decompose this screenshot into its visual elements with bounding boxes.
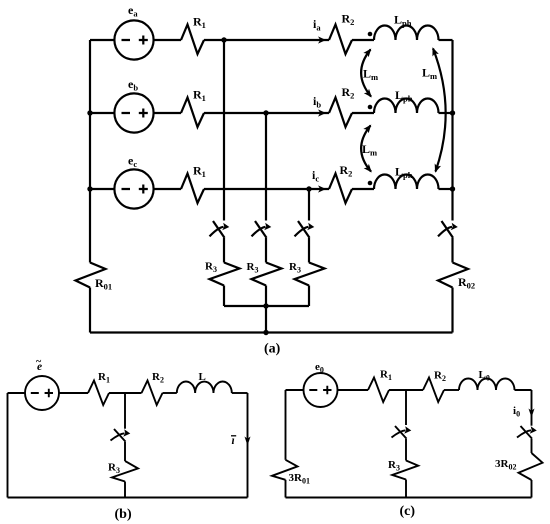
wire from source e_a to resistor R1 bbox=[154, 39, 181, 41]
resistor R1 (row b) bbox=[181, 98, 204, 128]
resistor R02 bbox=[438, 263, 468, 288]
wire row b from R1 to R2 with current arrow bbox=[204, 112, 329, 114]
right bus wire (to switch) bbox=[451, 40, 453, 221]
(b) inductor L bbox=[177, 382, 232, 394]
(b) voltage source e~ bbox=[25, 376, 59, 410]
(c) wire R3 to bottom bbox=[405, 480, 407, 498]
(c) resistor 3R01 bbox=[272, 460, 298, 480]
(b) resistor R2 bbox=[142, 381, 163, 406]
(c) right switch bbox=[521, 426, 533, 439]
wire row b from L_ph to right bus bbox=[439, 112, 453, 114]
resistor R3 #1 bbox=[210, 263, 240, 286]
wire switch to R02 bbox=[451, 238, 453, 263]
drop wire 3 (to switch) bbox=[308, 189, 310, 221]
(c) resistor R2 bbox=[423, 378, 444, 403]
svg-text:L: L bbox=[199, 371, 206, 383]
junction node right bus row b bbox=[450, 110, 455, 115]
(b) current arrow i~ bbox=[245, 437, 251, 446]
bottom bus wire of circuit (a) bbox=[90, 331, 453, 333]
(c) current arrow i_0 bbox=[529, 409, 535, 418]
inductor L_ph (row c) bbox=[374, 175, 439, 190]
resistor R1 (row a) bbox=[181, 25, 204, 55]
(c) wire switch to R3 bbox=[405, 439, 407, 461]
resistor R01 bbox=[76, 263, 106, 288]
junction node left bus row c bbox=[87, 186, 92, 191]
junction node bottom bus centre bbox=[263, 330, 268, 335]
(c) middle switch bbox=[395, 426, 407, 439]
resistor R3 #3 bbox=[295, 263, 325, 286]
wire: left bus of circuit (a) bbox=[89, 40, 91, 263]
(c) left wire to source bbox=[286, 389, 304, 391]
(c) bottom wire bbox=[286, 497, 532, 499]
svg-text:~: ~ bbox=[36, 357, 42, 368]
wire row c from R1 to R2 with current arrow bbox=[204, 188, 329, 190]
wire from source e_b to resistor R1 bbox=[154, 112, 181, 114]
voltage source e_b bbox=[114, 93, 153, 132]
(c) voltage source e_0 bbox=[304, 373, 338, 407]
wire row c from L_ph to right bus bbox=[439, 188, 453, 190]
resistor R3 #2 bbox=[252, 263, 282, 286]
(c) resistor R3 bbox=[392, 461, 418, 480]
(b) wire R3 to bottom bbox=[124, 482, 126, 498]
wire R01 to bottom bus bbox=[89, 288, 91, 333]
(b) left wire bbox=[7, 393, 9, 498]
(c) right wire with current arrow to switch bbox=[531, 390, 533, 426]
switch S1 bbox=[213, 221, 225, 238]
(b) resistor R1 bbox=[88, 381, 109, 406]
wire row b from bus to source bbox=[90, 112, 114, 114]
wire row b from R2 to inductor bbox=[352, 112, 374, 114]
(b) wire L to right corner bbox=[232, 392, 248, 394]
(b) right wire with current arrow bbox=[247, 393, 249, 498]
(c) wire source to R1 bbox=[338, 389, 369, 391]
collector wire joining three R3 bbox=[224, 305, 309, 307]
voltage source e_a bbox=[114, 20, 153, 59]
(c) wire switch to 3R02 bbox=[531, 439, 533, 453]
(c) wire 3R02 to bottom bbox=[531, 480, 533, 498]
(b) resistor R3 bbox=[112, 461, 138, 482]
switch S3 bbox=[298, 221, 310, 238]
resistor R1 (row c) bbox=[181, 174, 204, 204]
wire R3 #3 to collector bbox=[308, 286, 310, 307]
switch S2 bbox=[255, 221, 267, 238]
mutual inductance arrow L_m (rows a-c, long) bbox=[433, 49, 446, 172]
current arrow i_a bbox=[318, 36, 326, 43]
resistor R2 (row b) bbox=[329, 98, 352, 128]
svg-text:(c): (c) bbox=[400, 504, 416, 519]
(c) inductor L0 bbox=[459, 379, 515, 391]
(c) resistor 3R02 bbox=[519, 453, 543, 480]
(c) wire R2 to L0 bbox=[444, 389, 459, 391]
wire R3 #2 to collector bbox=[265, 286, 267, 307]
(c) branch wire to switch bbox=[405, 390, 407, 425]
wire row a from R1 to R2 with current arrow bbox=[204, 39, 329, 41]
(c) wire L0 to right corner bbox=[515, 389, 532, 391]
(b) bottom wire bbox=[8, 497, 248, 499]
(b) left wire to source bbox=[8, 392, 26, 394]
wire row a from R2 to inductor bbox=[352, 39, 374, 41]
junction node row a / drop wire 1 bbox=[221, 37, 226, 42]
(b) wire source to R1 bbox=[59, 392, 88, 394]
(c) left wire bbox=[285, 390, 287, 460]
drop wire 1 (to switch) bbox=[223, 40, 225, 221]
current arrow i_c bbox=[318, 185, 326, 192]
current arrow i_b bbox=[318, 109, 326, 116]
wire collector to bottom bus bbox=[265, 306, 267, 333]
wire switch to R3 #3 bbox=[308, 238, 310, 263]
inductor L_ph (row a) bbox=[374, 26, 439, 41]
wire R02 to bottom bus bbox=[451, 288, 453, 333]
svg-text:(a): (a) bbox=[264, 342, 281, 357]
wire switch to R3 #1 bbox=[223, 238, 225, 263]
voltage source e_c bbox=[114, 169, 153, 208]
(b) wire R2 to L bbox=[163, 392, 177, 394]
junction node left bus row b bbox=[87, 110, 92, 115]
(b) branch wire to switch bbox=[124, 393, 126, 429]
inductor L_ph (row b) bbox=[374, 99, 439, 114]
wire row a from bus to source bbox=[90, 39, 114, 41]
winding polarity dot row c bbox=[368, 181, 373, 186]
winding polarity dot row a bbox=[368, 32, 373, 37]
drop wire 2 (to switch) bbox=[265, 113, 267, 221]
(b) wire R1 to R2 bbox=[109, 392, 142, 394]
svg-text:ı: ı bbox=[232, 435, 235, 447]
(c) wire R1 to R2 bbox=[389, 389, 423, 391]
(c) wire 3R01 to bottom bbox=[285, 480, 287, 498]
mutual inductance arrow L_m (rows b-c) bbox=[361, 126, 371, 172]
winding polarity dot row b bbox=[368, 105, 373, 110]
wire R3 #1 to collector bbox=[223, 286, 225, 307]
junction node right bus row c bbox=[450, 186, 455, 191]
(c) resistor R1 bbox=[368, 378, 389, 403]
junction node row b / drop wire 2 bbox=[263, 110, 268, 115]
switch S4 (right) bbox=[442, 221, 454, 238]
junction node collector centre bbox=[263, 303, 268, 308]
(b) wire switch to R3 bbox=[124, 442, 126, 461]
wire from source e_c to resistor R1 bbox=[154, 188, 181, 190]
resistor R2 (row c) bbox=[329, 174, 352, 204]
mutual inductance arrow L_m (rows a-b) bbox=[361, 50, 371, 97]
wire row a from L_ph to right bus bbox=[439, 39, 453, 41]
wire row c from R2 to inductor bbox=[352, 188, 374, 190]
(b) switch bbox=[114, 429, 126, 442]
wire switch to R3 #2 bbox=[265, 238, 267, 263]
svg-text:(b): (b) bbox=[115, 507, 132, 522]
wire row c from bus to source bbox=[90, 188, 114, 190]
resistor R2 (row a) bbox=[329, 25, 352, 55]
junction node row c / drop wire 3 bbox=[306, 186, 311, 191]
